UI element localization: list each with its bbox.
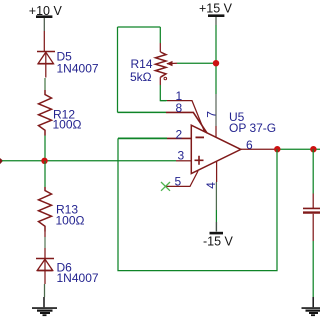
svg-text:1N4007: 1N4007 bbox=[57, 62, 99, 76]
svg-text:2: 2 bbox=[176, 127, 183, 141]
svg-text:100Ω: 100Ω bbox=[56, 214, 85, 228]
op-amp U5 pin7 stub bbox=[215, 126, 217, 138]
op-amp minus sign bbox=[196, 136, 205, 138]
off-page connector stub left bbox=[0, 159, 3, 164]
ground left bbox=[32, 297, 57, 315]
wire bbox=[44, 136, 46, 161]
svg-text:+15 V: +15 V bbox=[199, 2, 233, 16]
R14 wiper arrow bbox=[167, 62, 177, 64]
wire cap bottom bbox=[312, 214, 314, 241]
wire input horizontal to pin3 bbox=[2, 160, 176, 162]
op-amp pin8 lead bbox=[166, 112, 207, 133]
resistor R13 bbox=[39, 187, 52, 232]
wire feedback loop bbox=[118, 138, 277, 270]
svg-text:6: 6 bbox=[246, 138, 253, 152]
svg-text:OP 37-G: OP 37-G bbox=[229, 121, 276, 135]
op-amp pin3 lead bbox=[176, 160, 191, 162]
wire pin8 horizontal green bbox=[118, 111, 167, 113]
svg-text:1N4007: 1N4007 bbox=[57, 271, 99, 285]
op-amp output pin6 lead bbox=[241, 148, 277, 150]
wire pin4 to -15V bbox=[215, 182, 217, 210]
wire R14 bottom pin bbox=[159, 77, 161, 85]
diode D6 bbox=[36, 259, 54, 285]
wire R14 top horizontal bbox=[118, 26, 161, 28]
svg-text:100Ω: 100Ω bbox=[53, 118, 82, 132]
svg-text:-15 V: -15 V bbox=[203, 235, 234, 249]
power +15V bar bbox=[208, 14, 224, 17]
wire bbox=[44, 232, 46, 238]
wire R14 left vertical to pin8 bbox=[117, 27, 119, 112]
potentiometer R14 bbox=[156, 52, 167, 77]
op-amp pin1 lead bbox=[167, 101, 205, 132]
svg-text:8: 8 bbox=[176, 101, 183, 115]
op-amp pin2 lead bbox=[167, 137, 191, 139]
junction node output feedback bbox=[274, 146, 280, 152]
power -15V bar bbox=[210, 232, 224, 235]
wire pin1 bbox=[160, 100, 167, 102]
op-amp pin4 stub bbox=[216, 161, 218, 182]
diode D5 bbox=[37, 52, 55, 78]
op-amp plus sign bbox=[195, 156, 204, 165]
svg-text:3: 3 bbox=[178, 149, 185, 163]
wire R14 top pin bbox=[159, 27, 161, 43]
svg-text:5kΩ: 5kΩ bbox=[130, 70, 152, 84]
svg-text:R14: R14 bbox=[131, 57, 153, 71]
op-amp U5 triangle bbox=[191, 125, 241, 173]
power +10V bar bbox=[36, 15, 52, 18]
wire cap top bbox=[312, 149, 314, 193]
resistor R12 bbox=[39, 90, 52, 136]
R14 bottom terminal circle bbox=[164, 77, 167, 80]
wire bbox=[44, 78, 46, 90]
wire +15 rail bbox=[215, 25, 217, 94]
junction node wiper rail bbox=[213, 60, 219, 66]
wire bbox=[44, 284, 46, 297]
ground right bbox=[302, 297, 320, 315]
wire bbox=[43, 31, 45, 52]
wire bbox=[44, 248, 46, 258]
wire wiper to +15 rail bbox=[177, 62, 216, 64]
capacitor C bbox=[303, 207, 320, 209]
svg-text:7: 7 bbox=[205, 111, 219, 118]
svg-text:5: 5 bbox=[175, 175, 182, 189]
op-amp pin5 lead bbox=[167, 171, 199, 186]
wire output to right edge bbox=[277, 148, 320, 150]
power +10V stub bbox=[43, 18, 45, 31]
wire bbox=[44, 161, 46, 187]
wire pin2 feedback horizontal bbox=[118, 137, 167, 139]
no-connect X pin5 bbox=[161, 182, 170, 191]
junction node output cap bbox=[310, 146, 316, 152]
power +15V stub / rail bbox=[215, 17, 217, 25]
junction node left rail bbox=[41, 158, 47, 164]
